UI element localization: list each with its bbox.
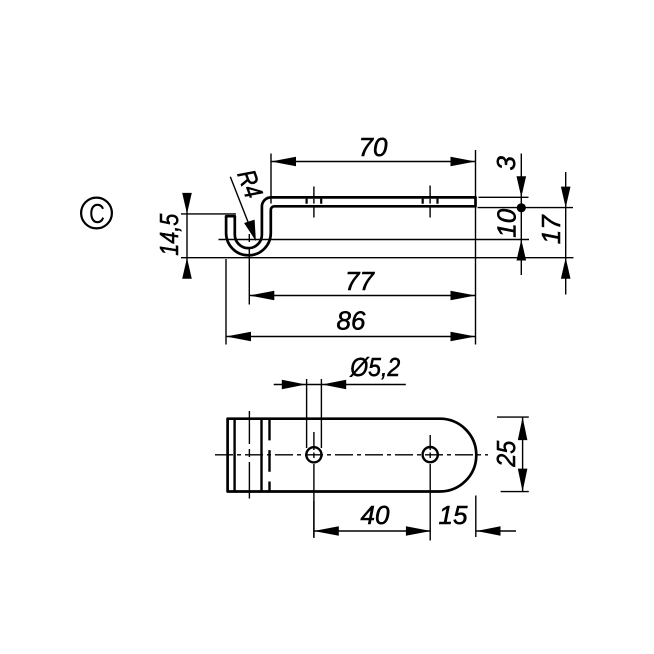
side view: hole 1 centerline tick [313,187,315,218]
top view: horizontal centerline [215,454,488,456]
top view: hole 2 vertical centerline / extension [429,435,431,541]
svg-text:25: 25 [491,440,521,467]
side view: hole 2 centerline tick [429,186,431,218]
top view: leg left visible edge line [260,419,262,492]
svg-text:15: 15 [439,500,468,530]
dimension 86 (bottom of side view) [226,259,476,345]
side view: hole 1 edge stubs [307,199,322,204]
svg-text:70: 70 [359,132,388,162]
svg-text:17: 17 [536,214,566,244]
svg-text:Ø5,2: Ø5,2 [349,352,400,382]
right side chain: extension lines [181,197,574,257]
radius leader R4 [230,166,269,242]
top view: hole 2 [423,447,438,462]
dimension 70 (top) [271,132,476,345]
view label C (circled letter) [81,198,112,230]
dimension 17 [536,172,571,295]
dimension 40 (hole spacing) [314,500,431,538]
top view: hook bend axis centerline [248,411,250,499]
top view: leg right hidden edge (dashed) [268,419,270,492]
dimension 3 (plate thickness) [491,154,526,276]
dimension 14,5 (left side) [154,193,236,279]
svg-text:77: 77 [345,266,375,296]
side view: hole 2 edge stubs [423,199,438,204]
dimension 10 [491,208,526,260]
svg-text:3: 3 [491,156,521,171]
datum dot (common point of 3/10/17) [517,203,526,212]
side view: part outline (J-hook strip profile) [226,197,475,255]
svg-text:86: 86 [337,306,366,336]
dimension 77 [249,234,475,305]
svg-text:14,5: 14,5 [154,213,184,255]
top view: hole 1 vertical centerline / extension [313,432,315,538]
svg-text:40: 40 [361,500,390,530]
svg-text:10: 10 [491,208,521,237]
top view: part outline (rounded-end plate) [228,419,477,492]
dimension 25 (width, right of top view) [491,417,529,492]
dimension 15 (hole to end) [439,496,516,538]
svg-text:C: C [89,199,105,230]
top view: upstand inner edge line [233,419,235,492]
top view: hole 1 [306,447,321,462]
dimension Ø5,2 (hole diameter) [274,352,406,448]
